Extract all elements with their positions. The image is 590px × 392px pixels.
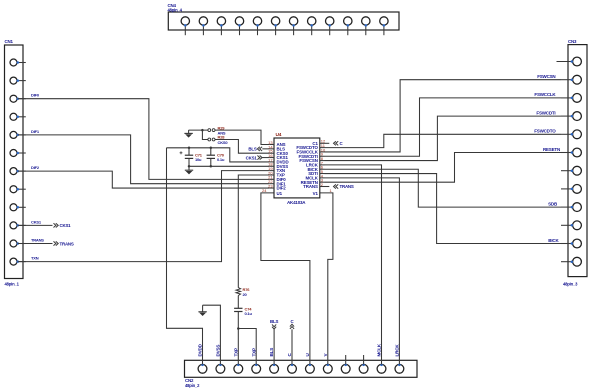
- wire R76 to C74: [237, 296, 239, 309]
- svg-text:U1: U1: [277, 191, 283, 196]
- wire DVSS (CN2 pin2 to ground): [203, 305, 221, 364]
- svg-text:CKS0: CKS0: [218, 140, 229, 145]
- connector CN2 (48pin_2, bottom): [185, 360, 418, 377]
- svg-text:V1: V1: [313, 191, 319, 196]
- svg-text:BLS: BLS: [248, 147, 256, 152]
- wire FSWCCLK (U4 to CN3 pin3): [325, 98, 562, 156]
- net label BLS (chevron) at CN2 pin5: [272, 324, 276, 329]
- wire branch down to R28: [202, 130, 208, 139]
- svg-text:CN3: CN3: [568, 39, 577, 44]
- connector CN3 (48pin_3, right): [557, 45, 588, 277]
- svg-text:48pin_3: 48pin_3: [563, 281, 578, 286]
- wire CKS0 (R28 to U4 CKS0): [215, 140, 269, 154]
- svg-text:DIF1: DIF1: [31, 129, 40, 134]
- U4 right pin names: [296, 141, 318, 196]
- svg-text:CN1: CN1: [5, 39, 14, 44]
- wire TXP (U4 TXP down to R76): [238, 175, 269, 288]
- junction C70 top: [210, 147, 213, 150]
- wire DIF1 (CN1 pin5 to U4 DIF1): [18, 135, 269, 184]
- net label <<C: [334, 141, 339, 145]
- resistor R76: [236, 288, 241, 296]
- op-amp-style IC U4 AK4103A body: [274, 138, 320, 198]
- svg-text:TRANS: TRANS: [303, 184, 318, 189]
- wire stub C at U4 pin C1: [325, 142, 330, 144]
- svg-text:BICK: BICK: [548, 238, 559, 243]
- svg-text:TRANS: TRANS: [340, 184, 354, 189]
- U4 left pin stubs: [269, 145, 274, 189]
- capacitor C71 10u (polarized): [185, 148, 193, 167]
- wire ANS (R29 to U4 ANS): [215, 130, 269, 144]
- wire DIF0 (CN1 pin3 to U4 DIF0): [18, 99, 269, 180]
- svg-text:MCLK: MCLK: [377, 343, 382, 356]
- net label <<TRANS: [334, 184, 339, 188]
- wire C74 to CN2 pin3 (TXP): [237, 312, 239, 365]
- svg-text:DIF2: DIF2: [277, 186, 287, 191]
- connector CN4 (48pin_4, top): [168, 12, 399, 35]
- svg-text:CKS1: CKS1: [60, 223, 72, 228]
- C71 plus sign: [180, 151, 183, 154]
- wire BLS stub at CN2 pin5: [273, 329, 275, 364]
- svg-text:BLS: BLS: [269, 348, 274, 357]
- resistor R28 (jumper to CKS0): [208, 138, 215, 141]
- wire FSWCSN (U4 to CN3 pin2): [325, 80, 562, 152]
- U4 left pin numbers 13-24: [262, 140, 273, 193]
- wire C stub at CN2 pin6: [291, 329, 293, 364]
- svg-text:TXN: TXN: [31, 256, 39, 261]
- net label >>TRANS: [54, 241, 59, 245]
- capacitor C70 0.1u: [207, 148, 215, 167]
- junction TXP at CN2: [237, 327, 240, 330]
- wire V (U4 pin V1 to CN2 pin8): [320, 193, 333, 365]
- wire DVDD rail (caps to U4 DVDD and down to CN2 pin1): [167, 148, 270, 162]
- wire TXN (CN1 pin12 to U4 TXN): [18, 171, 269, 262]
- wire stub TRANS at U4 TRANS pin: [325, 186, 330, 188]
- U4 right pin numbers 12-1: [321, 139, 333, 194]
- ground G1 (left of R29): [184, 130, 192, 138]
- svg-text:TXP: TXP: [233, 348, 238, 356]
- svg-text:CKS1: CKS1: [31, 219, 42, 224]
- net label >>CKS1: [54, 223, 59, 227]
- svg-text:FSWCDTI: FSWCDTI: [536, 110, 555, 115]
- wire DIF2 (CN1 pin7 to U4 DIF2): [18, 171, 269, 188]
- junction C70 bottom: [210, 165, 213, 168]
- net label BLS<< at U4 BLS pin: [257, 147, 269, 151]
- svg-text:0.1u: 0.1u: [217, 157, 225, 162]
- svg-text:U4: U4: [276, 132, 282, 138]
- svg-text:TXP: TXP: [251, 348, 256, 356]
- svg-text:DVDD: DVDD: [198, 343, 203, 356]
- svg-text:TRANS: TRANS: [31, 238, 44, 243]
- svg-text:BLS: BLS: [270, 319, 278, 324]
- wire U (U4 pin U1 to CN2 pin7): [261, 193, 310, 365]
- svg-text:48pin_2: 48pin_2: [185, 383, 200, 388]
- svg-text:DIF2: DIF2: [31, 165, 40, 170]
- svg-text:24: 24: [262, 188, 267, 193]
- ground G3 (DVSS at CN2): [198, 305, 206, 316]
- capacitor C74 0.1u: [234, 308, 242, 311]
- resistor R29 (jumper to ANS): [208, 129, 215, 132]
- junction C71 top: [188, 147, 191, 150]
- wire DVSS rail (caps to U4 DVSS): [189, 165, 269, 167]
- wire FSWCDTI (U4 to CN3 pin4): [325, 116, 562, 160]
- rotated net labels at CN2: [198, 343, 400, 356]
- junction at R29/R28 branch: [201, 129, 204, 132]
- svg-text:DIF0: DIF0: [31, 93, 40, 98]
- svg-text:FSWCCLK: FSWCCLK: [534, 92, 556, 97]
- wire RESETN (U4 to CN3 pin6): [325, 153, 562, 183]
- junction C71 bottom: [188, 165, 191, 168]
- connector CN1 (48pin_1, left): [5, 45, 26, 279]
- svg-text:48pin_4: 48pin_4: [168, 8, 183, 13]
- wire CKS1 stub at CN1 pin10: [18, 224, 53, 226]
- wire ground to R29/R28 branch: [189, 129, 208, 131]
- net label C (chevron) at CN2 pin6: [290, 324, 294, 329]
- svg-text:TRANS: TRANS: [60, 241, 74, 246]
- wire LRCK (U4 MCLK row to CN2 pin12): [325, 178, 400, 365]
- svg-text:SDB: SDB: [548, 201, 558, 206]
- wire TXP branch to CN2 pin4: [238, 329, 256, 365]
- svg-text:FSWCDTO: FSWCDTO: [534, 129, 556, 134]
- U4 right pin stubs: [320, 143, 325, 186]
- svg-text:48pin_1: 48pin_1: [5, 281, 20, 286]
- wire FSWCDTO (U4 to CN3 pin5): [325, 134, 562, 147]
- wire BICK (U4 SDTI row to CN3 pin11): [325, 174, 562, 244]
- ground G2 (below C71): [185, 166, 193, 174]
- wire stub CN2 pin9: [345, 355, 347, 364]
- net label CKS1>> at U4 CKS1 pin: [257, 155, 269, 159]
- U4 left pin names: [277, 142, 289, 196]
- svg-text:CKS1: CKS1: [246, 155, 258, 160]
- svg-text:LRCK: LRCK: [395, 344, 400, 357]
- svg-text:FSWCSN: FSWCSN: [537, 74, 555, 79]
- wire stub CN2 pin10: [363, 355, 365, 364]
- svg-text:0.1u: 0.1u: [245, 311, 253, 316]
- svg-text:DVSS: DVSS: [216, 345, 221, 357]
- svg-text:10u: 10u: [195, 157, 202, 162]
- wire MCLK (U4 LRCK row to CN2 pin11): [325, 165, 382, 365]
- wire TRANS stub at CN1 pin11: [18, 243, 53, 245]
- wire SDB (U4 BICK row to CN3 pin9): [325, 169, 562, 207]
- svg-text:RESETN: RESETN: [543, 147, 560, 152]
- svg-text:AK4103A: AK4103A: [287, 200, 306, 205]
- svg-text:23: 23: [268, 183, 273, 188]
